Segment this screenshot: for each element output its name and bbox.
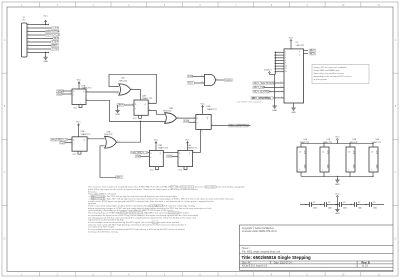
frame column ticks and numbers [39, 2, 41, 7]
label HALT/CYCLE [46, 30, 59, 33]
svg-text:74HC132: 74HC132 [163, 111, 172, 113]
label RDY at and-gate [187, 82, 194, 85]
svg-text:VCC: VCC [185, 140, 190, 142]
power flag VCC at J1 [45, 20, 47, 24]
svg-text:C1: C1 [313, 202, 315, 204]
svg-text:... and enable when required: ... and enable when required [234, 101, 261, 104]
svg-text:RDY_EXTRDY: RDY_EXTRDY [254, 89, 272, 93]
wire U1B clear to VCC [156, 167, 159, 170]
power unit U1E 74AHCT74 [297, 147, 306, 172]
label CLK at U4B clock [183, 120, 189, 123]
svg-text:GND: GND [335, 213, 340, 215]
wire and-gate output [215, 79, 224, 81]
power VCC at U2A [78, 124, 80, 128]
wire U1E GND pin [300, 172, 302, 176]
svg-text:14: 14 [371, 152, 373, 154]
flip-flop U4B 74AHCT74 [196, 114, 211, 129]
svg-text:>: > [135, 107, 136, 110]
svg-text:4: 4 [28, 34, 29, 36]
svg-text:Copyright © Adrien Kohlbecker: Copyright © Adrien Kohlbecker [242, 227, 274, 230]
svg-text:13: 13 [285, 71, 287, 73]
svg-text:C2: C2 [328, 202, 330, 204]
wire J1 pin9 to GND [31, 52, 49, 54]
svg-text:Using a 132 as a pair isn't co: Using a 132 as a pair isn't combined [314, 66, 347, 69]
wire U1A clear to VCC [79, 105, 82, 108]
svg-text:14: 14 [322, 152, 324, 154]
wire U2B clear to VCC [139, 115, 142, 118]
wire U4A Q up to U4B [193, 152, 201, 154]
svg-text:2: 2 [102, 147, 103, 149]
svg-text:C5: C5 [373, 202, 375, 204]
wire U2B Q out [148, 102, 156, 104]
title block frame [239, 225, 241, 270]
label CLK at and-gate [187, 75, 193, 78]
flip-flop U2A 74AHCT74 [72, 137, 87, 151]
svg-text:100n: 100n [358, 208, 362, 210]
svg-text:10: 10 [281, 86, 283, 88]
svg-text:Id: 1/1: Id: 1/1 [362, 266, 369, 268]
label RDY_STEPPING dark [251, 96, 273, 99]
frame row ticks and letters [2, 72, 7, 74]
svg-text:13: 13 [201, 131, 203, 133]
label RDY at U3A [116, 176, 123, 179]
wire RDY_WAITSTATE to U5 [275, 82, 284, 84]
svg-text:2: 2 [70, 138, 71, 140]
wire feedback loop U2B Q to U3C [109, 74, 156, 103]
svg-text:13: 13 [201, 82, 203, 84]
wire U1B Q to U4A D [163, 152, 178, 154]
label CLK between U1B and U4A [167, 155, 173, 158]
flip-flop U1A 74AHCT74 [72, 89, 86, 105]
label RDY_WAITSTATE [253, 82, 275, 85]
label RDY_EXTRDY [253, 90, 269, 93]
svg-text:VCC: VCC [154, 140, 159, 142]
power VCC at U4B [202, 105, 204, 109]
ground GND below U5 inputs [274, 104, 276, 106]
svg-text:Title: 6502/65816 Single Stepp: Title: 6502/65816 Single Stepping [242, 255, 312, 260]
wire U1A Q to U3C input [86, 91, 119, 93]
svg-text:>: > [73, 93, 74, 96]
wire U3A output up to U3B input [121, 122, 141, 143]
svg-text:74AHCT74: 74AHCT74 [300, 141, 309, 144]
wire CLK to U2A clock [65, 142, 72, 144]
wire VCC rail [301, 142, 374, 144]
note box about 132 choice [312, 65, 369, 84]
svg-text:CLK: CLK [54, 36, 59, 40]
svg-text:74HC132: 74HC132 [350, 142, 358, 144]
wire U4E GND pin [372, 172, 374, 176]
svg-text:RDY: RDY [117, 175, 123, 179]
svg-text:10: 10 [285, 65, 287, 67]
svg-text:74HC132: 74HC132 [296, 45, 305, 47]
svg-text:GND: GND [335, 184, 340, 186]
ground GND at U2B D wire [117, 105, 119, 108]
svg-text:CLK: CLK [188, 74, 193, 78]
svg-text:HALT/RDY_1: HALT/RDY_1 [132, 150, 148, 154]
svg-text:10: 10 [117, 93, 119, 95]
svg-text:6: 6 [28, 41, 29, 43]
svg-text:4: 4 [80, 84, 81, 86]
capacitor C3 100n [338, 202, 340, 207]
wire U2A Q to U3A [87, 138, 105, 140]
label CLK at U1B [135, 155, 141, 158]
svg-text:Some other chip could be chose: Some other chip could be chosen [314, 72, 344, 75]
wire U3E VCC pin [349, 143, 351, 147]
ground GND at U5 bottom [293, 103, 295, 106]
junction U1A Qbar / U3A out [140, 121, 141, 122]
label CLK at U1A [57, 93, 63, 96]
wire DMA to U2B D [124, 104, 134, 106]
svg-text:C3: C3 [343, 202, 345, 204]
svg-text:14: 14 [348, 152, 350, 154]
svg-text:CLK: CLK [60, 140, 65, 144]
svg-text:VCC: VCC [76, 122, 81, 124]
svg-text:6: 6 [87, 99, 88, 101]
svg-text:5: 5 [28, 37, 29, 39]
wire J1 pin8 SYNC [31, 48, 51, 50]
svg-text:11: 11 [216, 78, 218, 80]
wire U3C output to U2B preset [131, 90, 141, 101]
svg-text:74AHCT74: 74AHCT74 [82, 87, 93, 90]
svg-text:CLK: CLK [57, 92, 62, 96]
capacitor C5 100n [368, 202, 370, 207]
svg-text:RDY_STEPPING: RDY_STEPPING [252, 97, 271, 100]
svg-text:74HC132: 74HC132 [119, 80, 128, 82]
wire J1 pin3 HALT/CYCLE [31, 31, 46, 33]
wire U1E VCC pin [300, 143, 302, 147]
wire CLK to U1B clock [141, 155, 150, 157]
svg-text:GND: GND [43, 61, 48, 63]
wire STEP to U1A D [64, 90, 73, 92]
svg-text:74AHCT74: 74AHCT74 [158, 147, 169, 150]
label CLKIN [52, 27, 59, 30]
svg-text:U3C: U3C [121, 78, 126, 80]
svg-text:to release the RDY line, then: to release the RDY line, then go. [88, 230, 119, 233]
label CLK [53, 37, 59, 40]
ground GND rail symbol [336, 176, 338, 178]
svg-text:RDY: RDY [310, 51, 316, 55]
power VCC at U4A [187, 141, 189, 145]
svg-text:3: 3 [28, 30, 29, 32]
svg-text:GND: GND [291, 112, 296, 114]
svg-text:Size: A4: Size: A4 [242, 261, 251, 264]
wire U5 upper input bus [275, 51, 284, 53]
svg-text:in both cases, STEP inputs are: in both cases, STEP inputs are ignored u… [88, 200, 214, 203]
capacitor C4 100n [353, 202, 355, 207]
svg-text:100n: 100n [343, 208, 347, 210]
svg-text:>: > [150, 156, 151, 159]
svg-text:VCC: VCC [200, 104, 205, 106]
svg-text:VCC: VCC [77, 80, 82, 82]
wire J1 pin1 to VCC [31, 24, 49, 26]
svg-text:4-input AND and NAND gate.: 4-input AND and NAND gate. [314, 69, 341, 72]
flip-flop U2B 74AHCT74 [134, 100, 148, 115]
svg-text:5: 5 [193, 151, 194, 153]
wire J1 pin4 RDY/CYCLE [31, 34, 46, 36]
svg-text:RDY_WAITSTATE: RDY_WAITSTATE [254, 81, 276, 85]
svg-text:CLK: CLK [167, 154, 172, 158]
svg-text:SYNC: SYNC [52, 47, 59, 51]
capacitor C1 100n [308, 202, 310, 207]
wire U1A Qbar down and right [86, 100, 165, 121]
svg-text:12: 12 [132, 104, 134, 106]
svg-text:RDY_STEPPING: RDY_STEPPING [229, 123, 249, 127]
svg-text:1: 1 [80, 103, 81, 105]
svg-text:U4A: U4A [187, 144, 192, 147]
wire J1 pin6 STEP [31, 41, 51, 43]
label SYNC [51, 48, 59, 51]
svg-text:>: > [179, 156, 180, 159]
svg-text:74AHCT74: 74AHCT74 [187, 147, 198, 150]
wire CLK to and-gate [193, 75, 205, 77]
wire U2A clear to VCC [78, 151, 81, 154]
svg-text:1: 1 [28, 23, 29, 25]
wire J1 pin2 CLKIN [31, 27, 52, 29]
or-gate U3A 74HC132 [105, 136, 117, 148]
label RDY_STEPPING at U4B [229, 124, 249, 127]
label RDY inverted at U5 out [309, 52, 316, 55]
svg-text:14: 14 [299, 152, 301, 154]
svg-text:11: 11 [281, 82, 283, 84]
notes inline label boxes [171, 186, 178, 189]
svg-text:74AHCT74: 74AHCT74 [372, 141, 381, 144]
wire cap bank rail [300, 204, 309, 206]
svg-text:CLKIN: CLKIN [52, 28, 59, 30]
wire RDY_ISR to U5 [264, 86, 284, 88]
wire U2B Qbar to U3B [148, 111, 165, 115]
svg-text:>: > [73, 142, 74, 145]
power VCC rail for spare gates [336, 137, 338, 139]
svg-text:3: 3 [70, 141, 71, 143]
power VCC at U5 [290, 38, 292, 40]
label DMA at U2B [117, 104, 124, 107]
label CLK at U2A [60, 141, 66, 144]
svg-text:12: 12 [201, 75, 203, 77]
capacitor C2 100n [323, 202, 325, 207]
svg-text:RDY: RDY [188, 81, 194, 85]
ground GND at J1 [45, 53, 47, 56]
svg-text:100n: 100n [328, 208, 332, 210]
svg-text:2: 2 [28, 27, 29, 29]
wire J1 pin7 RDY [31, 45, 52, 47]
svg-text:VCC: VCC [289, 37, 294, 39]
svg-text:RDY: RDY [310, 48, 316, 52]
svg-text:Sheet: /: Sheet: / [242, 247, 250, 250]
svg-text:pulse of the step input, for t: pulse of the step input, for this circui… [88, 188, 198, 191]
svg-text:8: 8 [28, 48, 29, 50]
svg-text:Date: 2022-07-14: Date: 2022-07-14 [274, 261, 293, 264]
wire U3A output [116, 141, 120, 143]
svg-text:74AHCT74: 74AHCT74 [142, 97, 153, 100]
label HALT/RDY_1 at U1B [131, 151, 148, 154]
wire U3E GND pin [349, 172, 351, 176]
svg-text:VCC: VCC [43, 15, 48, 17]
svg-text:100n: 100n [373, 208, 377, 210]
svg-text:74HC132: 74HC132 [104, 134, 113, 136]
power VCC at U1A [78, 82, 80, 86]
svg-text:>: > [197, 121, 198, 124]
power unit U2E 74AHCT74 [320, 147, 329, 172]
svg-text:KiCad E.D.A. kicad 6.0.6: KiCad E.D.A. kicad 6.0.6 [242, 265, 268, 268]
svg-text:U2A: U2A [81, 130, 86, 133]
svg-text:RDY_ISR: RDY_ISR [254, 85, 265, 89]
svg-text:Licensed under CERN-OHL-W v2: Licensed under CERN-OHL-W v2 [242, 230, 278, 233]
svg-text:12: 12 [285, 68, 287, 70]
wire RDY label to U3A input [100, 146, 116, 178]
svg-text:100n: 100n [313, 208, 317, 210]
svg-text:VCC: VCC [264, 69, 269, 71]
wire GND rail [301, 175, 374, 177]
svg-text:CLK: CLK [136, 154, 141, 158]
svg-text:3: 3 [178, 117, 179, 119]
svg-text:depending on the amount of RDY: depending on the amount of RDY sources [314, 75, 352, 78]
wire HALT/RDY_0 to U2A D [68, 139, 72, 141]
label RDY/CYCLE [46, 34, 59, 37]
or-gate U3B 74HC132 [165, 113, 177, 124]
svg-text:12: 12 [194, 117, 196, 119]
svg-text:RDY: RDY [52, 43, 58, 47]
label CLKA at and-gate out [224, 79, 232, 82]
power VCC feeding U5 inputs [271, 73, 275, 75]
svg-text:7: 7 [28, 44, 29, 46]
svg-text:Rev: B: Rev: B [362, 260, 370, 264]
label RDY [52, 44, 59, 47]
wire U2E GND pin [323, 172, 325, 176]
svg-text:GND: GND [115, 114, 120, 116]
wire U2E VCC pin [323, 143, 325, 147]
power unit U3E 74HC132 [346, 147, 355, 172]
wire RDY_EXTRDY to U5 [269, 91, 284, 93]
wire U5 output RDYb [304, 53, 309, 55]
label STEP [51, 41, 59, 44]
wire CLK label to U4A clock [172, 155, 178, 157]
wire CLK to U1A clock [62, 93, 72, 95]
power unit U4E 74AHCT74 [369, 147, 378, 172]
svg-text:File: 6502_single_stepping.kic: File: 6502_single_stepping.kicad_sch [242, 250, 281, 253]
svg-text:9: 9 [28, 51, 29, 53]
svg-text:VCC: VCC [335, 193, 340, 195]
wire RDY to and-gate [194, 82, 204, 84]
power VCC at cap bank [336, 194, 338, 196]
svg-text:U3A: U3A [107, 131, 112, 134]
svg-text:74AHCT74: 74AHCT74 [81, 133, 92, 136]
svg-text:VCC: VCC [335, 136, 340, 138]
flip-flop U1B 74AHCT74 [149, 150, 163, 166]
wire U4A clear to VCC [184, 167, 187, 170]
label RDY at U5 out [309, 49, 316, 52]
wire U5 output RDY [304, 50, 309, 52]
wire CLK label to U4B clock [189, 121, 196, 123]
ic U5 74HC132 body [284, 49, 304, 103]
svg-text:CLK: CLK [184, 119, 189, 123]
label HALT/RDY_0 at U2A [51, 138, 68, 141]
label RDY_ISR [253, 86, 264, 89]
svg-text:CLKA: CLKA [225, 78, 232, 82]
svg-text:in your system.: in your system. [314, 78, 328, 81]
svg-text:10: 10 [207, 116, 209, 118]
svg-text:DMA: DMA [118, 103, 124, 107]
and-gate U6C [205, 74, 216, 85]
or-gate U3C 74HC132 [119, 84, 131, 95]
wire RDY_STEPPING to U5 [273, 97, 284, 99]
wire U3B output to U4B D [177, 117, 196, 119]
svg-text:5: 5 [87, 91, 88, 93]
wire U4E VCC pin [372, 143, 374, 147]
svg-text:1: 1 [102, 137, 103, 139]
wire HALT/RDY_1 to U1B D [148, 152, 150, 154]
svg-text:C4: C4 [358, 202, 360, 204]
ground GND at cap bank [336, 205, 338, 208]
svg-text:GND: GND [272, 110, 277, 112]
power VCC at U1B [155, 141, 157, 145]
svg-text:STEP: STEP [52, 40, 59, 44]
wire U4B Q to RDY_STEPPING [211, 125, 250, 127]
wire J1 pin5 CLK [31, 38, 53, 40]
flip-flop U4A 74AHCT74 [178, 150, 193, 166]
wire U5 input pulldown chain [274, 74, 276, 103]
label STEP at U1A [57, 90, 64, 93]
svg-text:74AHCT74: 74AHCT74 [323, 141, 332, 144]
svg-text:I/O: I/O [23, 20, 26, 22]
wire U4B clear down to U4A Q [200, 129, 202, 152]
svg-text:74AHCT74: 74AHCT74 [207, 108, 218, 111]
svg-text:11: 11 [194, 121, 196, 123]
